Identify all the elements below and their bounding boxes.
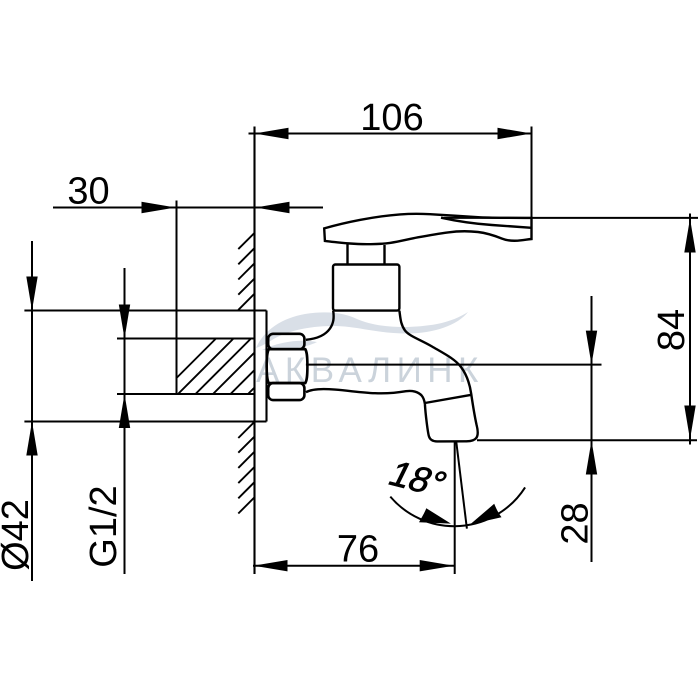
dim 106 line [249, 133, 532, 135]
dim 76 line [253, 565, 454, 567]
wall face line [253, 127, 255, 575]
supply pipe outer bottom line [24, 420, 266, 422]
tap body outer top edge and spout right edge [399, 311, 477, 442]
dim G1/2 line [124, 268, 126, 574]
wall flange plate right edge [265, 311, 267, 422]
angle arc arrowhead left [419, 508, 451, 523]
svg-text:30: 30 [67, 171, 109, 213]
valve bonnet [333, 265, 399, 311]
tap body underside edge [306, 389, 425, 404]
wall hatching upper section [238, 233, 254, 310]
inlet pipe G1/2 bottom line [117, 393, 255, 395]
inlet pipe G1/2 top line [117, 337, 255, 339]
aerator nose joint line [425, 395, 472, 403]
angle 18 deg tilted ray [456, 442, 467, 529]
svg-text:28: 28 [555, 502, 597, 544]
angle 18 deg arc [390, 487, 525, 526]
dim 28 line [591, 296, 593, 562]
tap body left flare into nut [306, 311, 334, 340]
dim 84 top reference line [444, 217, 698, 219]
dim 30 extension line (flange left) [176, 201, 178, 395]
pipe fitting cross-section hatching [177, 339, 255, 395]
lever handle [324, 214, 531, 244]
dim 84 line [689, 214, 691, 445]
watermark swoosh logo [256, 312, 468, 350]
dim O42 line [31, 241, 33, 581]
svg-text:G1/2: G1/2 [83, 485, 125, 567]
svg-text:76: 76 [337, 529, 379, 571]
handle stem [346, 244, 348, 265]
dim 106 extension line right (handle end) [531, 127, 533, 240]
tap connection hex nut [267, 334, 308, 400]
svg-text:Ø42: Ø42 [0, 499, 37, 571]
spout outlet extension line [454, 441, 456, 574]
angle arc arrowhead right [470, 504, 501, 525]
wall hatching lower section [238, 422, 254, 514]
svg-text:84: 84 [651, 309, 693, 351]
pipe axis line [306, 364, 602, 366]
dim 30 line [53, 207, 255, 209]
dim 84 bottom reference line [477, 439, 697, 441]
lever top-face back edge [441, 218, 532, 228]
supply pipe outer top line [24, 309, 266, 311]
svg-text:106: 106 [360, 97, 423, 139]
